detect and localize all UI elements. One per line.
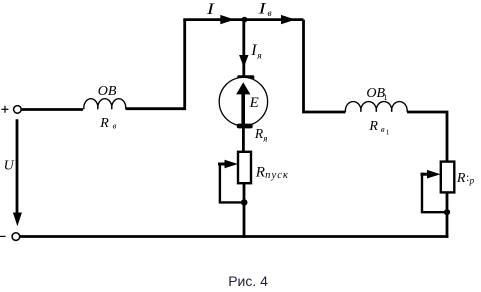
svg-text:I: I bbox=[257, 0, 266, 17]
wire: junction to top-right corner bbox=[245, 18, 304, 21]
svg-text:R: R bbox=[99, 116, 109, 131]
label Iя bbox=[250, 42, 261, 62]
wire: OB1 to right corner, down to rheostat Rp bbox=[407, 112, 447, 161]
svg-text:пуск: пуск bbox=[265, 170, 289, 181]
bottom wire bbox=[20, 235, 449, 238]
svg-text:I: I bbox=[206, 1, 215, 18]
wire: OB to top-left corner, up bbox=[126, 20, 185, 109]
wire: Rпуск bottom through junction to bottom wire bbox=[243, 184, 246, 238]
voltage arrow U bbox=[13, 119, 22, 226]
svg-text:в: в bbox=[268, 9, 272, 19]
inductor OB1 bbox=[345, 102, 407, 112]
label Iв bbox=[257, 0, 271, 19]
label Rпуск bbox=[255, 165, 289, 181]
svg-text:я: я bbox=[262, 133, 267, 143]
wire: top-right corner down and to OB1 bbox=[304, 20, 346, 112]
motor armature circle bbox=[219, 77, 267, 125]
label Rв1 bbox=[368, 119, 390, 137]
label OB1 bbox=[366, 86, 387, 102]
svg-text:я: я bbox=[256, 52, 261, 62]
armature current arrow Iя bbox=[239, 20, 248, 76]
svg-text:1: 1 bbox=[383, 92, 387, 102]
label Rя bbox=[254, 126, 267, 143]
wiper arrow Rпуск bbox=[218, 160, 244, 203]
label Rв bbox=[99, 116, 116, 131]
svg-text:Рис. 4: Рис. 4 bbox=[228, 273, 268, 289]
wiper arrow Rp bbox=[421, 170, 448, 212]
node: middle junction bbox=[241, 199, 248, 206]
svg-text:1: 1 bbox=[386, 129, 390, 137]
brush top bbox=[237, 75, 254, 79]
svg-text:I: I bbox=[250, 42, 257, 59]
node: right junction bbox=[444, 209, 450, 215]
arrow Iв bbox=[281, 15, 295, 24]
wire: plus terminal to inductor OB bbox=[21, 108, 83, 111]
svg-text:в: в bbox=[381, 124, 385, 134]
svg-text:р: р bbox=[469, 175, 475, 185]
rheostat Rпуск bbox=[238, 152, 251, 183]
svg-text:U: U bbox=[4, 159, 15, 174]
svg-text:OB: OB bbox=[98, 84, 117, 99]
plus terminal bbox=[2, 106, 22, 114]
rheostat Rp bbox=[441, 162, 455, 193]
inductor OB bbox=[84, 99, 126, 110]
wire: Rp bottom through junction to bottom wire bbox=[446, 193, 449, 238]
wire: brush bottom to Rпуск bbox=[242, 128, 245, 152]
svg-text:E: E bbox=[249, 95, 259, 111]
wire: top-left corner to junction bbox=[183, 18, 244, 21]
minus terminal bbox=[0, 233, 20, 241]
brush bottom bbox=[237, 124, 253, 129]
svg-text:R: R bbox=[368, 119, 378, 134]
label Rp bbox=[456, 170, 475, 186]
node: top junction bbox=[242, 17, 248, 23]
svg-text:R: R bbox=[255, 165, 265, 181]
svg-text:в: в bbox=[113, 121, 117, 131]
svg-text:R: R bbox=[456, 171, 466, 186]
EMF arrow E bbox=[236, 82, 250, 125]
arrow I bbox=[220, 15, 234, 24]
